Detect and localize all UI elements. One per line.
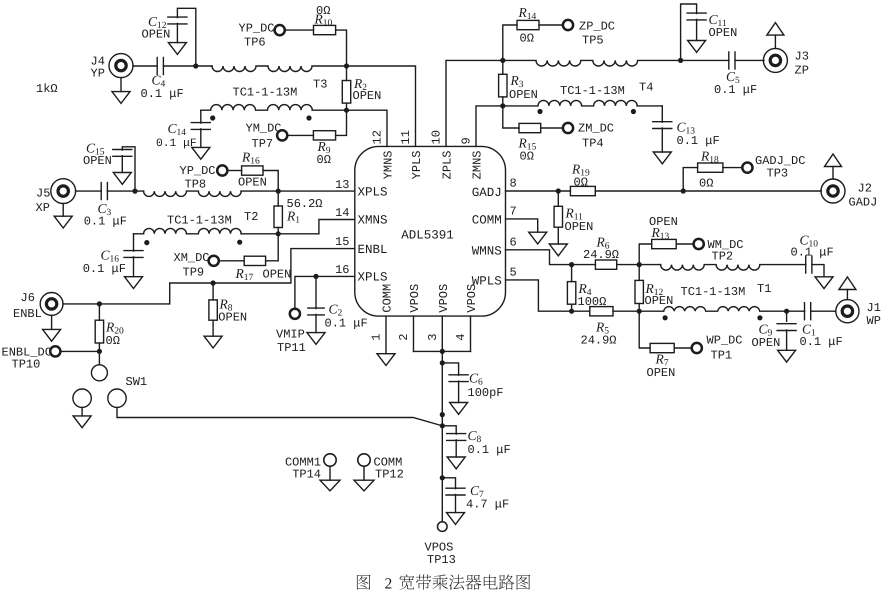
resistor R12 — [635, 280, 643, 303]
wire VPOS bus — [414, 350, 471, 352]
wire R13 riser — [639, 244, 652, 265]
wire R14 to TP5 — [539, 24, 563, 26]
test point TP2 — [694, 239, 704, 249]
phase dot T4 left — [537, 109, 542, 114]
svg-text:15: 15 — [335, 235, 349, 249]
arrow stem J1 — [846, 290, 848, 300]
svg-text:T4: T4 — [639, 81, 653, 95]
junction R12 top node — [637, 262, 642, 267]
svg-text:24.9Ω: 24.9Ω — [581, 334, 617, 348]
svg-text:ZM_DC: ZM_DC — [578, 122, 614, 136]
svg-text:TP8: TP8 — [185, 178, 207, 192]
svg-text:XPLS: XPLS — [358, 186, 388, 200]
junction YP node B — [344, 63, 349, 68]
ground stem C11 — [696, 19, 698, 40]
svg-text:0.1 μF: 0.1 μF — [800, 335, 843, 349]
ground below J4 — [112, 92, 130, 104]
wire R9 to node — [336, 110, 347, 135]
svg-text:YP_DC: YP_DC — [180, 164, 216, 178]
wire SW1 to VPOS rail — [117, 407, 442, 425]
svg-text:T3: T3 — [313, 78, 327, 92]
connector J6 — [40, 293, 63, 316]
svg-text:0.1 μF: 0.1 μF — [714, 83, 757, 97]
svg-text:TP13: TP13 — [427, 553, 456, 567]
wire TP8 to R16 — [228, 170, 242, 172]
wire R13 to TP2 — [676, 243, 693, 245]
resistor R2 — [342, 81, 350, 104]
svg-text:4: 4 — [454, 334, 468, 341]
junction ZM node — [500, 103, 505, 108]
wire R10 to node — [336, 30, 347, 66]
ground below C16 — [125, 277, 143, 289]
wire R20 top — [98, 304, 100, 320]
wire R18 riser — [683, 168, 697, 191]
ground stem C8 — [455, 440, 457, 457]
junction TP10 node — [97, 349, 102, 354]
wire TP6 to R10 — [285, 29, 313, 31]
wire R18 to TP3 — [723, 167, 742, 169]
test point TP9 — [209, 256, 219, 266]
resistor R17 — [244, 256, 265, 265]
svg-text:OPEN: OPEN — [353, 89, 382, 103]
svg-text:J6: J6 — [21, 291, 35, 305]
wire WMNS b — [572, 264, 596, 266]
test point TP10 — [50, 346, 60, 356]
svg-text:0Ω: 0Ω — [574, 175, 588, 189]
wire WPLS b — [572, 310, 590, 312]
resistor R11 — [554, 206, 562, 227]
transformer T1 secondary — [664, 307, 805, 312]
capacitor C4 — [157, 58, 163, 75]
wire C1 to J1 — [811, 310, 836, 312]
svg-text:J3: J3 — [795, 50, 809, 64]
svg-text:TP14: TP14 — [292, 468, 321, 482]
wire R8 top — [212, 283, 214, 300]
connector J3 — [763, 48, 787, 72]
switch SW1 throw A — [73, 389, 91, 407]
wire C8 tap — [442, 426, 456, 434]
wire R11 top — [557, 191, 559, 206]
wire to C15 — [122, 147, 135, 191]
svg-text:2: 2 — [385, 576, 393, 593]
resistor R7 — [650, 343, 674, 352]
test point TP6 — [275, 25, 285, 35]
svg-text:TP2: TP2 — [712, 249, 734, 263]
svg-text:16: 16 — [335, 263, 349, 277]
wire T2 to C16 — [133, 234, 135, 251]
wire R12 body top — [638, 265, 640, 281]
svg-text:OPEN: OPEN — [647, 366, 676, 380]
capacitor C3 — [101, 183, 107, 200]
transformer T4 primary — [503, 60, 681, 66]
svg-text:VPOS: VPOS — [465, 284, 479, 313]
resistor R3 — [499, 74, 507, 97]
wire R14 riser — [503, 25, 517, 60]
test point TP1 — [692, 343, 702, 353]
ground below J5 — [54, 216, 72, 228]
svg-text:COMM: COMM — [381, 284, 395, 313]
ground stem SW1 — [81, 407, 83, 416]
ground stem C16 — [133, 257, 135, 277]
wire YM to pin12 — [347, 110, 388, 146]
svg-text:0Ω: 0Ω — [520, 150, 534, 164]
wire node to pin11 — [347, 66, 416, 146]
ground below C11 — [688, 41, 706, 53]
junction R4 bottom node — [569, 309, 574, 314]
svg-text:ADL5391: ADL5391 — [401, 229, 454, 243]
junction R8 node — [211, 280, 216, 285]
svg-text:TC1-1-13M: TC1-1-13M — [233, 85, 298, 99]
resistor R14 — [517, 20, 539, 29]
op-amp U1 ADL5391 body — [355, 146, 506, 316]
test point TP13 — [438, 522, 448, 532]
svg-text:J1: J1 — [867, 301, 881, 315]
transformer T1 primary — [661, 265, 806, 270]
ground stem pin7 — [506, 219, 538, 232]
svg-text:0.1 μF: 0.1 μF — [325, 317, 368, 331]
resistor R20 — [95, 320, 103, 343]
ground stem C14 — [200, 129, 202, 148]
phase dot T3 right — [306, 115, 311, 120]
capacitor C6 — [449, 375, 468, 382]
switch SW1 pole — [91, 365, 107, 381]
capacitor C9 — [777, 324, 796, 331]
svg-text:SW1: SW1 — [126, 375, 148, 389]
svg-text:J5: J5 — [36, 186, 50, 200]
wire R2 bottom — [346, 103, 348, 110]
svg-text:GADJ: GADJ — [849, 196, 878, 210]
svg-text:TP1: TP1 — [711, 348, 733, 362]
wire GADJ a — [506, 190, 571, 192]
capacitor C7 — [446, 488, 465, 495]
wire R16 to node — [263, 171, 278, 192]
svg-text:TP7: TP7 — [252, 137, 274, 151]
test point TP11 — [290, 309, 300, 319]
svg-text:VPOS: VPOS — [437, 284, 451, 313]
svg-text:0Ω: 0Ω — [317, 153, 331, 167]
wire C10 to gnd — [812, 265, 824, 277]
svg-text:TP12: TP12 — [375, 468, 404, 482]
svg-text:ZP: ZP — [795, 64, 809, 78]
wire R7 riser — [639, 311, 650, 348]
wire R2 top — [346, 66, 348, 81]
phase dot T2 left — [144, 240, 149, 245]
resistor R9 — [313, 131, 335, 140]
svg-text:T2: T2 — [244, 210, 258, 224]
svg-text:J2: J2 — [858, 182, 872, 196]
test point TP7 — [277, 130, 287, 140]
ground pin7 COMM — [529, 232, 547, 244]
ground stem J4 — [120, 78, 122, 92]
wire C2 riser — [315, 276, 317, 308]
capacitor C15 — [113, 150, 132, 157]
wire pin3 riser — [441, 316, 443, 351]
ground below TP12 — [354, 480, 374, 491]
test point TP12 — [358, 454, 370, 466]
junction R11 node — [556, 188, 561, 193]
capacitor C2 — [308, 308, 324, 315]
junction R20 node — [97, 301, 102, 306]
svg-text:ZPLS: ZPLS — [441, 151, 455, 180]
switch SW1 throw B — [108, 389, 126, 407]
svg-text:XP: XP — [36, 201, 50, 215]
wire C6 tap — [442, 363, 458, 375]
svg-text:YM_DC: YM_DC — [246, 122, 282, 136]
test point TP4 — [563, 123, 573, 133]
resistor R1 — [274, 206, 282, 228]
wire ENBL — [63, 249, 355, 304]
junction C8 node — [440, 423, 445, 428]
resistor R18 — [698, 163, 723, 172]
ground below C8 — [447, 457, 465, 469]
ground below J6 — [43, 329, 61, 341]
wire C5 to J3 — [735, 59, 764, 61]
caption figure 2 title — [357, 574, 530, 592]
svg-text:0.1 μF: 0.1 μF — [677, 134, 720, 148]
svg-text:ENBL: ENBL — [358, 243, 388, 257]
wire R12 bottom — [638, 304, 640, 312]
wire R3 bottom — [502, 97, 504, 106]
svg-text:8: 8 — [510, 177, 517, 191]
wire GADJ b — [595, 190, 821, 192]
transformer T3 primary — [212, 66, 347, 72]
wire VPOS rail — [441, 351, 443, 522]
svg-text:WMNS: WMNS — [472, 245, 502, 259]
ground stem C6 — [458, 381, 460, 402]
svg-text:YPLS: YPLS — [410, 151, 424, 180]
svg-text:T1: T1 — [757, 282, 771, 296]
svg-text:TC1-1-13M: TC1-1-13M — [560, 84, 625, 98]
capacitor C12 — [168, 17, 187, 24]
ground below C15 — [113, 173, 131, 185]
resistor R19 — [570, 186, 595, 195]
wire R20 bottom — [98, 343, 100, 351]
svg-text:GADJ: GADJ — [472, 186, 502, 200]
connector J2 — [821, 179, 845, 203]
svg-text:OPEN: OPEN — [238, 176, 267, 190]
ground below R11 — [549, 244, 567, 256]
ground stem TP14 — [329, 466, 331, 480]
junction C2 node — [313, 274, 318, 279]
svg-text:YP: YP — [91, 67, 105, 81]
ground below C14 — [192, 147, 210, 159]
junction YM node — [344, 108, 349, 113]
phase dot T1 right — [757, 315, 762, 320]
svg-text:YMNS: YMNS — [382, 151, 396, 180]
svg-text:0.1 μF: 0.1 μF — [791, 246, 834, 260]
wire WPLS — [506, 280, 572, 311]
svg-text:6: 6 — [510, 235, 517, 249]
arrow stem J2 — [832, 167, 834, 180]
ground pin1 COMM — [377, 354, 395, 366]
svg-text:24.9Ω: 24.9Ω — [583, 248, 619, 262]
junction XM node — [276, 231, 281, 236]
junction XP node — [132, 189, 137, 194]
arrow above J2 — [825, 154, 842, 167]
wire C11 to C5 — [681, 59, 729, 61]
wire node to SW1 — [98, 351, 100, 364]
capacitor C11 — [687, 13, 706, 20]
svg-text:5: 5 — [510, 265, 517, 279]
ground stem J6 — [51, 315, 53, 329]
capacitor C5 — [729, 52, 735, 69]
ground stem R8 — [212, 320, 214, 336]
junction R4 top node — [569, 262, 574, 267]
wire J4 to C4 — [133, 65, 157, 67]
wire XM to pin14 — [319, 220, 355, 234]
wire pin2 riser — [413, 316, 415, 351]
resistor R10 — [314, 25, 336, 34]
wire R4 body top — [571, 265, 573, 282]
test point TP14 — [324, 454, 336, 466]
svg-text:TC1-1-13M: TC1-1-13M — [167, 214, 232, 228]
phase dot T3 left — [210, 115, 215, 120]
junction SW node A — [440, 412, 445, 417]
svg-text:VMIP: VMIP — [276, 328, 305, 342]
wire pin16 — [295, 276, 355, 308]
wire J5 to C3 — [76, 190, 102, 192]
capacitor C16 — [124, 251, 143, 258]
junction R18 node — [681, 188, 686, 193]
svg-text:TP10: TP10 — [12, 358, 41, 372]
svg-text:TP4: TP4 — [582, 137, 604, 151]
wire R15 riser — [503, 106, 519, 128]
svg-text:0Ω: 0Ω — [520, 32, 534, 46]
capacitor C13 — [653, 122, 672, 129]
capacitor C14 — [191, 123, 210, 130]
resistor R6 — [595, 260, 616, 269]
svg-text:WP_DC: WP_DC — [707, 334, 743, 348]
capacitor C10 — [806, 256, 812, 273]
junction C7 node — [440, 475, 445, 480]
transformer T2 secondary — [134, 228, 319, 233]
svg-text:3: 3 — [426, 334, 440, 341]
svg-text:TC1-1-13M: TC1-1-13M — [681, 285, 746, 299]
ground stem C13 — [661, 128, 663, 152]
svg-text:10: 10 — [430, 130, 444, 144]
svg-text:TP11: TP11 — [277, 341, 306, 355]
ground stem C7 — [455, 495, 457, 513]
svg-text:12: 12 — [371, 130, 385, 144]
svg-text:1: 1 — [370, 334, 384, 341]
svg-text:0Ω: 0Ω — [699, 176, 713, 190]
svg-text:OPEN: OPEN — [263, 268, 292, 282]
wire WMNS c — [617, 264, 661, 266]
svg-text:TP3: TP3 — [767, 167, 789, 181]
wire TP9 to R17 — [219, 260, 244, 262]
wire C4 to T3 — [163, 65, 212, 67]
svg-text:OPEN: OPEN — [709, 26, 738, 40]
junction C6 node — [440, 360, 445, 365]
svg-text:7: 7 — [510, 204, 517, 218]
ground stem C15 — [121, 156, 123, 173]
svg-text:ZP_DC: ZP_DC — [579, 20, 615, 34]
capacitor C1 — [805, 303, 811, 320]
ground stem C2 — [315, 314, 317, 332]
junction C9 node — [784, 309, 789, 314]
svg-text:9: 9 — [460, 137, 474, 144]
ground below C13 — [653, 152, 671, 164]
svg-text:14: 14 — [335, 206, 349, 220]
svg-text:1kΩ: 1kΩ — [36, 82, 58, 96]
svg-text:11: 11 — [399, 130, 413, 144]
wire T3 to C14 — [200, 110, 202, 123]
connector J1 — [836, 300, 859, 323]
ground stem pin1 — [385, 316, 387, 354]
test point TP8 — [217, 165, 227, 175]
svg-text:0Ω: 0Ω — [106, 334, 120, 348]
arrow above J1 — [839, 277, 856, 290]
wire WMNS — [506, 250, 572, 265]
svg-text:0.1 μF: 0.1 μF — [468, 443, 511, 457]
svg-text:XPLS: XPLS — [358, 271, 388, 285]
svg-text:YP_DC: YP_DC — [239, 21, 275, 35]
connector J5 — [51, 179, 76, 204]
svg-text:TP5: TP5 — [582, 34, 604, 48]
junction ZP node — [500, 58, 505, 63]
junction node YP — [193, 63, 198, 68]
svg-text:100pF: 100pF — [468, 386, 504, 400]
ground below C6 — [450, 403, 468, 415]
wire R7 to TP1 — [674, 347, 691, 349]
wire TP10 to node — [61, 350, 100, 352]
ground stem C9 — [786, 330, 788, 350]
ground below R8 — [204, 336, 222, 348]
svg-text:ZMNS: ZMNS — [471, 151, 485, 180]
ground below SW1 — [73, 416, 91, 428]
svg-text:OPEN: OPEN — [142, 28, 171, 42]
arrow stem J3 — [774, 35, 776, 48]
svg-text:TP9: TP9 — [183, 265, 205, 279]
svg-text:COMM: COMM — [472, 214, 502, 228]
junction VPOS bus — [440, 349, 445, 354]
wire pin4 riser — [470, 316, 472, 351]
svg-text:TP6: TP6 — [244, 35, 266, 49]
capacitor C8 — [447, 434, 466, 441]
svg-text:OPEN: OPEN — [83, 154, 112, 168]
junction C11 node — [678, 58, 683, 63]
wire R1 bottom — [277, 228, 279, 234]
ground below C9 — [778, 350, 796, 362]
wire pin10 riser — [446, 60, 503, 146]
wire R3 top — [502, 60, 504, 74]
phase dot T1 left — [663, 315, 668, 320]
ground below TP14 — [320, 480, 340, 491]
arrow above J3 — [767, 23, 784, 35]
ground stem J5 — [62, 204, 64, 217]
svg-text:OPEN: OPEN — [565, 220, 594, 234]
svg-text:0.1 μF: 0.1 μF — [84, 214, 127, 228]
resistor R15 — [519, 123, 541, 132]
svg-text:VPOS: VPOS — [408, 284, 422, 313]
svg-text:0.1 μF: 0.1 μF — [156, 138, 197, 150]
svg-text:OPEN: OPEN — [218, 311, 247, 325]
test point TP3 — [742, 163, 752, 173]
wire T4 to C13 — [661, 106, 663, 122]
wire R4 bottom — [571, 304, 573, 311]
ground below C12 — [168, 43, 186, 55]
transformer T3 secondary — [201, 105, 347, 111]
svg-text:0.1 μF: 0.1 μF — [141, 87, 184, 101]
svg-text:4.7 μF: 4.7 μF — [466, 497, 509, 511]
ground below C10 — [815, 277, 833, 289]
resistor R4 — [567, 282, 575, 305]
svg-text:OPEN: OPEN — [509, 88, 538, 102]
wire to C12 — [177, 8, 195, 66]
transformer T2 primary — [144, 191, 355, 196]
wire R17 to node — [266, 234, 279, 261]
resistor R8 — [209, 300, 217, 320]
